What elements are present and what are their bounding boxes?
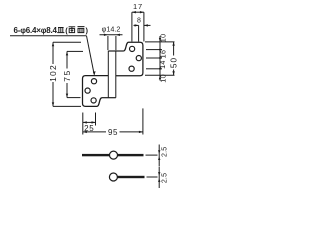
kanji ryou (both) (69, 27, 76, 33)
hole left leaf middle (85, 88, 90, 93)
dim 17 arrowheads (132, 11, 136, 13)
dim 75 dimension and extension lines (67, 51, 83, 97)
dim 8 arrowheads (135, 24, 139, 26)
side view row 1: leaf edge bar with knuckle circle (82, 145, 159, 167)
dim phi14.2 dimension and extension lines (100, 35, 123, 50)
svg-text:8: 8 (137, 17, 141, 24)
chain dimension end arrowheads (159, 38, 161, 42)
dim 50 arrowheads (172, 42, 174, 46)
kanji sara (countersunk) (57, 28, 64, 33)
leader underline and leader line of hole note (10, 36, 94, 75)
svg-text:6-φ6.4×φ8.4: 6-φ6.4×φ8.4 (14, 26, 58, 35)
svg-text:95: 95 (108, 128, 118, 137)
left leaf plate outline (83, 76, 109, 107)
svg-text:10: 10 (159, 34, 168, 43)
dim 25 dimension and extension lines (83, 113, 96, 135)
hole right leaf bottom (129, 66, 134, 71)
dim 50 dimension line (173, 42, 175, 76)
right leaf plate outline (116, 42, 143, 76)
svg-text:75: 75 (62, 69, 72, 81)
hole left leaf top (91, 79, 96, 84)
dim 102 dimension and extension lines (53, 42, 81, 106)
dim 102 arrowheads (52, 42, 54, 46)
svg-text:17: 17 (133, 2, 143, 11)
svg-text:14: 14 (158, 60, 167, 69)
hole left leaf bottom (91, 98, 96, 103)
dim 95 arrowheads (83, 131, 87, 133)
dim 95 dimension and extension lines (83, 108, 143, 134)
svg-text:102: 102 (48, 64, 58, 82)
svg-text:2.5: 2.5 (162, 147, 169, 157)
hole right leaf middle (136, 56, 141, 61)
right chain dimension extension lines and chain line (145, 36, 175, 81)
leader arrowhead (93, 71, 96, 75)
svg-text:10: 10 (158, 74, 167, 83)
hole right leaf top (130, 46, 135, 51)
dim 25 arrowheads (83, 121, 87, 123)
hinge knuckle barrel (front view) (102, 51, 123, 98)
dim 8 dimension and extension lines (134, 25, 151, 41)
svg-text:16: 16 (159, 50, 168, 59)
svg-text:2.5: 2.5 (162, 173, 169, 183)
row 2 thickness dim 2.5 arrowheads (158, 172, 160, 176)
chain dimension intermediate dots (159, 49, 161, 51)
kanji men (sides) (78, 27, 85, 33)
svg-text:φ14.2: φ14.2 (102, 25, 121, 34)
side view row 2: leaf edge bar with knuckle circle (109, 167, 159, 189)
svg-text:50: 50 (168, 57, 178, 68)
dim 17 dimension and extension lines (132, 12, 144, 41)
dim 75 arrowheads (66, 51, 68, 55)
dim phi14.2 arrowheads (104, 34, 108, 36)
row 1 thickness dim 2.5 arrowheads (158, 150, 160, 154)
